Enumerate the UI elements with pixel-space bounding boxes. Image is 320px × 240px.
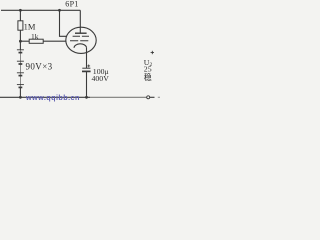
capacitor C1 bottom plate	[82, 70, 91, 72]
wire 1M upper lead	[19, 10, 21, 20]
svg-text:www.qqibb.cn: www.qqibb.cn	[25, 93, 80, 102]
tube V1 anode plate bar	[75, 32, 87, 34]
wire cathode lead down to capacitor	[86, 47, 88, 68]
wire 1M lower lead to grid node	[19, 30, 21, 41]
output terminal circle	[147, 96, 150, 99]
battery GB cell 2 long plate	[17, 60, 24, 62]
node D junction bottom rail / capacitor	[85, 96, 88, 99]
wire bottom rail	[0, 96, 90, 98]
battery GB cell 1 short plate	[19, 52, 23, 54]
battery GB inter-cell lead	[19, 50, 21, 88]
wire faint edge stub	[158, 96, 160, 98]
battery GB cell 1 long plate	[17, 49, 24, 51]
capacitor C1 top plate	[82, 67, 90, 69]
wire battery bottom lead	[19, 88, 21, 98]
wire capacitor bottom lead	[86, 71, 88, 97]
wire anode lead down from top rail corner	[79, 10, 81, 33]
capacitor C1 polarity plus	[87, 65, 90, 68]
node B junction top rail / screen	[58, 9, 61, 12]
wire battery top lead	[19, 41, 21, 50]
wire output stub after terminal	[150, 96, 155, 98]
battery GB cell 4 long plate	[17, 84, 24, 86]
svg-text:400V: 400V	[92, 74, 110, 83]
svg-text:稳: 稳	[144, 72, 152, 82]
svg-text:1k: 1k	[31, 32, 39, 41]
label output plus	[151, 51, 154, 54]
node G junction grid / 1M / battery	[19, 40, 22, 43]
svg-text:1M: 1M	[24, 21, 36, 31]
node C junction bottom rail / battery	[19, 96, 22, 99]
wire top rail	[1, 9, 80, 11]
wire grid node to 1k resistor	[20, 40, 29, 42]
battery GB cell 3 short plate	[19, 75, 23, 77]
battery GB cell 3 long plate	[17, 72, 24, 74]
tube V1 6P1 envelope	[66, 27, 96, 53]
wire bottom rail right (faded)	[90, 96, 147, 98]
battery GB cell 2 short plate	[19, 63, 23, 65]
wire screen-grid L connection	[60, 10, 67, 36]
wire 1k resistor to control grid	[43, 40, 66, 42]
resistor R1 1M (box)	[18, 21, 23, 30]
svg-text:90V×3: 90V×3	[26, 62, 53, 72]
resistor R2 1k (box)	[29, 39, 43, 43]
node A junction top rail / 1M	[19, 9, 22, 12]
tube V1 screen grid (dashed)	[73, 35, 89, 37]
svg-text:6P1: 6P1	[65, 0, 78, 9]
tube V1 control grid (dashed)	[70, 40, 88, 42]
tube V1 cathode arc	[74, 44, 87, 48]
battery GB cell 4 short plate	[19, 86, 23, 88]
